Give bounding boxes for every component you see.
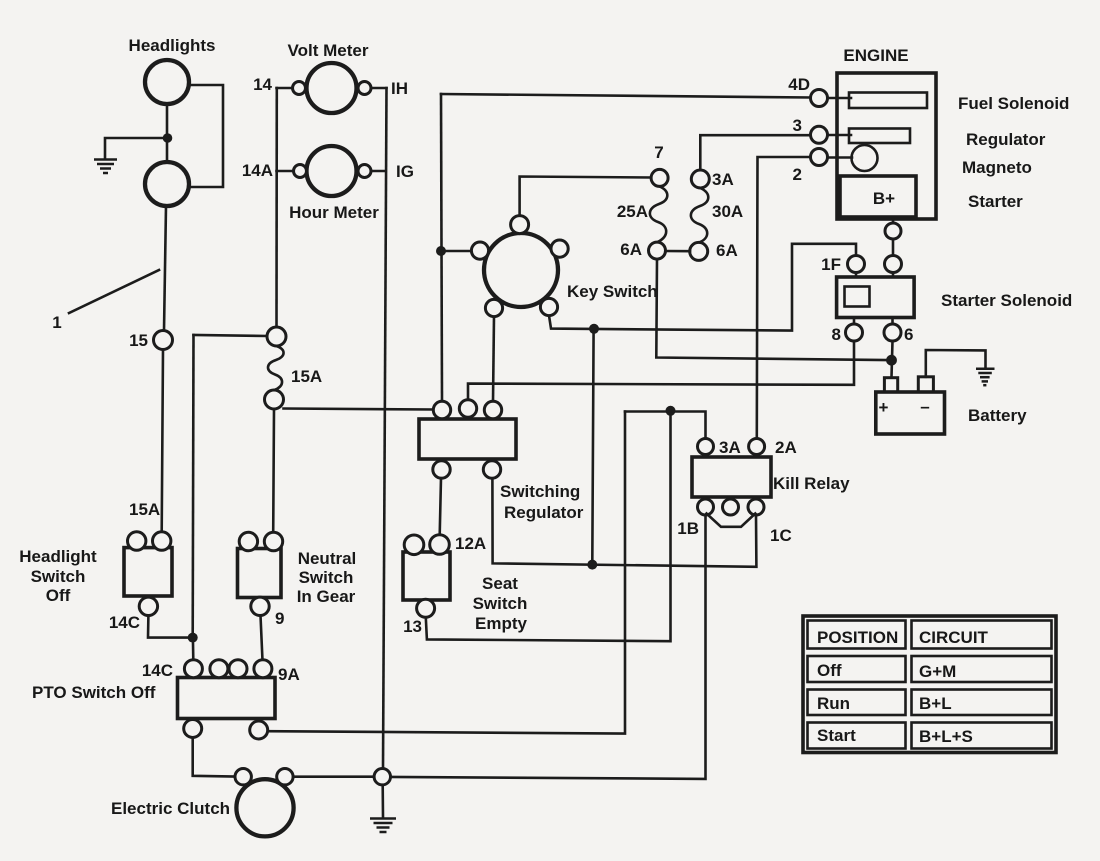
- kill relay terminal 3A: [698, 439, 714, 455]
- wire hour meter right to IG bus: [371, 170, 385, 173]
- battery terminal post right: [918, 377, 933, 392]
- wire 2 into engine: [828, 156, 853, 159]
- svg-text:8: 8: [832, 325, 841, 344]
- svg-text:Switch: Switch: [299, 568, 354, 587]
- svg-text:Headlights: Headlights: [129, 36, 216, 55]
- hour meter terminal right: [358, 165, 371, 178]
- svg-text:Fuel Solenoid: Fuel Solenoid: [958, 94, 1069, 113]
- fuse 25A bottom terminal 6A: [649, 242, 666, 259]
- volt meter terminal right: [358, 82, 371, 95]
- terminal above solenoid: [885, 256, 902, 273]
- engine terminal 2: [811, 149, 828, 166]
- PTO terminal top 1: [184, 660, 202, 678]
- wire headlight right loop: [189, 85, 223, 187]
- wire clutch right to ground node: [293, 775, 374, 778]
- svg-text:1: 1: [52, 313, 61, 332]
- key switch body: [484, 233, 558, 307]
- wire kill net x625 down to PTO: [268, 412, 626, 734]
- svg-text:14C: 14C: [142, 661, 173, 680]
- svg-text:PTO Switch Off: PTO Switch Off: [32, 683, 156, 702]
- PTO terminal top 4: [254, 660, 272, 678]
- node junction 14C: [188, 633, 198, 643]
- PTO terminal bottom right: [250, 721, 268, 739]
- svg-text:15: 15: [129, 331, 148, 350]
- wire regulator bottom-left to seat switch 12A: [440, 478, 441, 535]
- svg-text:B+L: B+L: [919, 694, 952, 713]
- switching regulator terminal top-middle: [459, 400, 476, 417]
- PTO terminal top 3: [229, 660, 247, 678]
- wire 1B down to clutch line: [391, 515, 706, 779]
- svg-text:Regulator: Regulator: [504, 503, 584, 522]
- svg-text:6A: 6A: [716, 241, 738, 260]
- svg-text:9: 9: [275, 609, 284, 628]
- wire kill net x670 down to seat switch 13: [426, 411, 671, 641]
- battery terminal post left: [884, 378, 897, 392]
- neutral switch terminal 9: [251, 597, 269, 615]
- table outer box: [803, 616, 1056, 753]
- svg-text:7: 7: [654, 143, 663, 162]
- wire kill 3A net top: [625, 412, 706, 439]
- wire 9 down to PTO 9A: [261, 616, 263, 661]
- fuse 30A top terminal 3A: [691, 170, 709, 188]
- svg-text:2: 2: [793, 165, 802, 184]
- table cell CIRCUIT: [912, 621, 1052, 649]
- wire junction down x593: [592, 329, 593, 564]
- svg-text:Key Switch: Key Switch: [567, 282, 658, 301]
- switching regulator terminal bottom-right: [483, 461, 500, 478]
- svg-text:14: 14: [253, 75, 272, 94]
- svg-text:4D: 4D: [788, 75, 810, 94]
- svg-text:Starter Solenoid: Starter Solenoid: [941, 291, 1072, 310]
- wire between 6A terminals: [666, 250, 691, 253]
- svg-text:14C: 14C: [109, 613, 140, 632]
- wire key left terminal to node: [441, 250, 472, 253]
- svg-text:In Gear: In Gear: [297, 587, 356, 606]
- svg-text:Headlight: Headlight: [19, 547, 97, 566]
- terminal below B+: [885, 223, 901, 239]
- PTO terminal top 2: [210, 660, 228, 678]
- svg-text:+: +: [879, 398, 889, 417]
- svg-text:Start: Start: [817, 726, 856, 745]
- svg-text:14A: 14A: [242, 161, 273, 180]
- neutral switch box: [238, 549, 282, 598]
- table cell G+M: [912, 656, 1052, 682]
- starter solenoid inner square: [845, 287, 870, 307]
- seat switch terminal top-left: [404, 535, 424, 555]
- headlight lamp lower: [145, 162, 189, 206]
- fuse 30A element: [691, 188, 708, 243]
- kill relay terminal 2A: [749, 439, 765, 455]
- fuse 15A top terminal: [267, 327, 286, 346]
- wire between headlights: [166, 104, 169, 162]
- seat switch terminal 13: [417, 599, 435, 617]
- wire 3 into engine: [828, 134, 852, 137]
- engine terminal 3: [811, 126, 828, 143]
- starter solenoid box: [837, 277, 915, 318]
- neutral switch terminal top-right: [264, 532, 282, 550]
- ground symbol bottom: [370, 819, 396, 833]
- svg-text:Battery: Battery: [968, 406, 1027, 425]
- svg-text:Electric Clutch: Electric Clutch: [111, 799, 230, 818]
- kill relay box: [692, 457, 771, 497]
- svg-text:B+: B+: [873, 189, 895, 208]
- wire kill relay U link: [707, 514, 756, 527]
- wire PTO bottom-left to clutch: [193, 738, 235, 777]
- svg-text:Volt Meter: Volt Meter: [288, 41, 369, 60]
- wire fuse bottom to switching regulator: [284, 409, 434, 410]
- svg-text:Starter: Starter: [968, 192, 1023, 211]
- key switch terminal bottom-left: [485, 299, 502, 316]
- svg-text:Switching: Switching: [500, 482, 580, 501]
- svg-text:IH: IH: [391, 79, 408, 98]
- key switch terminal top: [511, 216, 529, 234]
- ground symbol headlights: [94, 160, 117, 174]
- svg-text:Off: Off: [46, 586, 71, 605]
- wire meter bus 14 vertical: [275, 88, 278, 327]
- svg-text:–: –: [920, 397, 929, 416]
- svg-text:Regulator: Regulator: [966, 130, 1046, 149]
- svg-text:13: 13: [403, 617, 422, 636]
- wire key bottom-left down to switching regulator: [493, 316, 494, 402]
- wire 1F into solenoid box: [855, 273, 858, 278]
- wire 14C to junction: [148, 616, 188, 638]
- battery body: [876, 392, 945, 434]
- seat switch box: [403, 552, 450, 600]
- engine terminal 4D: [811, 90, 828, 107]
- wire volt meter right to IH bus: [371, 87, 387, 90]
- switching regulator terminal top-left: [433, 401, 450, 418]
- wire terminal 6 down to battery: [892, 341, 893, 377]
- table cell B+L+S: [912, 723, 1052, 749]
- wire 4D bus vertical x441: [441, 94, 442, 402]
- wire headlights down to node 15: [164, 206, 166, 331]
- svg-text:IG: IG: [396, 162, 414, 181]
- wire fuse top to left riser: [194, 335, 268, 336]
- wire key bottom-right to starter solenoid 1F: [549, 244, 856, 331]
- fuel solenoid element: [849, 93, 927, 109]
- key switch terminal right: [551, 240, 568, 257]
- table cell Off: [808, 656, 906, 682]
- svg-text:12A: 12A: [455, 534, 486, 553]
- clutch terminal left: [235, 769, 251, 785]
- node junction kill 3A net: [666, 406, 676, 416]
- kill relay terminal 1C: [748, 499, 764, 515]
- wire fuse bottom down to neutral switch: [272, 409, 275, 533]
- svg-text:15A: 15A: [129, 500, 160, 519]
- fuse 15A bottom terminal: [265, 390, 284, 409]
- B+ box: [840, 176, 916, 217]
- svg-text:Neutral: Neutral: [298, 549, 357, 568]
- svg-text:CIRCUIT: CIRCUIT: [919, 628, 989, 647]
- wire 4D horizontal from meter bus: [441, 94, 811, 98]
- svg-text:25A: 25A: [617, 202, 648, 221]
- svg-text:POSITION: POSITION: [817, 628, 898, 647]
- svg-text:3A: 3A: [712, 170, 734, 189]
- ground node terminal: [374, 769, 390, 785]
- headlight switch terminal top-left: [128, 532, 146, 550]
- volt meter terminal left: [293, 82, 306, 95]
- fuse 15A element: [268, 346, 284, 390]
- table cell Run: [808, 690, 906, 716]
- fuse 25A element: [650, 186, 667, 242]
- svg-text:3A: 3A: [719, 438, 741, 457]
- svg-text:Kill Relay: Kill Relay: [773, 474, 850, 493]
- svg-text:6: 6: [904, 325, 913, 344]
- node junction key switch to kill circuit: [589, 324, 599, 334]
- ground symbol battery: [976, 369, 995, 385]
- key switch terminal left: [471, 242, 488, 259]
- svg-text:Empty: Empty: [475, 614, 528, 633]
- wire ground node stem: [381, 785, 384, 817]
- terminal 1F: [848, 256, 865, 273]
- svg-text:B+L+S: B+L+S: [919, 727, 973, 746]
- svg-text:Off: Off: [817, 661, 842, 680]
- wire key top terminal to fuse 7: [520, 177, 651, 217]
- node 15 terminal: [154, 331, 173, 350]
- wire 1C down left to switching regulator: [492, 478, 756, 567]
- table cell POSITION: [808, 621, 906, 649]
- svg-text:G+M: G+M: [919, 662, 956, 681]
- switching regulator terminal top-right: [484, 401, 501, 418]
- kill relay terminal middle: [723, 499, 739, 515]
- hour meter body: [307, 146, 357, 196]
- clutch terminal right: [277, 769, 293, 785]
- headlight lamp upper: [145, 60, 189, 104]
- wire solenoid to terminal 8: [853, 318, 856, 325]
- table cell B+L: [912, 690, 1052, 716]
- svg-text:2A: 2A: [775, 438, 797, 457]
- wire to ground: [105, 138, 167, 158]
- svg-text:Run: Run: [817, 694, 850, 713]
- switching regulator terminal bottom-left: [433, 461, 450, 478]
- wire battery negative to ground: [926, 350, 986, 377]
- headlight switch terminal top-right: [153, 532, 171, 550]
- wire chain: [892, 239, 895, 256]
- wire 6A down and right to battery node: [656, 259, 886, 360]
- node junction battery positive: [886, 355, 897, 366]
- wire 3A top to engine terminal 3: [700, 135, 810, 170]
- svg-text:Hour Meter: Hour Meter: [289, 203, 379, 222]
- terminal 6: [884, 324, 901, 341]
- magneto element: [852, 145, 878, 171]
- svg-text:1B: 1B: [677, 519, 699, 538]
- node junction key left on 4D bus: [436, 246, 446, 256]
- switching regulator box: [419, 419, 516, 459]
- svg-text:6A: 6A: [620, 240, 642, 259]
- hour meter terminal left: [294, 165, 307, 178]
- svg-text:1F: 1F: [821, 255, 841, 274]
- regulator element: [849, 129, 910, 144]
- PTO switch box: [178, 678, 276, 719]
- key switch terminal bottom-right: [540, 298, 557, 315]
- svg-text:9A: 9A: [278, 665, 300, 684]
- svg-text:3: 3: [793, 116, 802, 135]
- wire 4D into engine: [828, 97, 852, 100]
- svg-text:Switch: Switch: [31, 567, 86, 586]
- wire IH bus vertical long: [383, 88, 387, 769]
- seat switch terminal 12A: [430, 535, 450, 555]
- wire 14A to bus: [277, 170, 294, 173]
- svg-text:Magneto: Magneto: [962, 158, 1032, 177]
- wire into solenoid box: [892, 273, 895, 278]
- wire 14 to bus: [277, 87, 293, 90]
- wire solenoid to terminal 6: [891, 318, 894, 325]
- neutral switch terminal top-left: [239, 532, 257, 550]
- svg-text:ENGINE: ENGINE: [843, 46, 908, 65]
- svg-text:30A: 30A: [712, 202, 743, 221]
- wire B+ box to chain: [892, 219, 895, 223]
- node junction headlight ground: [163, 133, 173, 143]
- wire node15 down to headlight switch: [162, 350, 163, 533]
- volt meter body: [307, 63, 357, 113]
- svg-text:15A: 15A: [291, 367, 322, 386]
- svg-text:1C: 1C: [770, 526, 792, 545]
- wire terminal 8 down and left to switching regulator: [468, 341, 854, 401]
- fuse 30A bottom terminal 6A: [690, 242, 708, 260]
- headlight switch box: [124, 548, 172, 596]
- fuse 25A top terminal 7: [651, 169, 668, 186]
- PTO terminal bottom left: [184, 720, 202, 738]
- engine box: [837, 73, 936, 219]
- svg-text:Switch: Switch: [473, 594, 528, 613]
- wire 2 left and down to kill relay 2A: [757, 157, 811, 439]
- table cell Start: [808, 723, 906, 749]
- terminal 8: [846, 324, 863, 341]
- node junction 1C line with key switch drop: [587, 560, 597, 570]
- wire junction down to PTO: [192, 638, 195, 661]
- headlight switch terminal 14C: [139, 597, 157, 615]
- pointer line 1: [69, 270, 159, 313]
- svg-text:Seat: Seat: [482, 574, 518, 593]
- wire left riser x193 down to 14C junction: [191, 335, 194, 638]
- kill relay terminal 1B: [698, 499, 714, 515]
- electric clutch body: [236, 779, 293, 836]
